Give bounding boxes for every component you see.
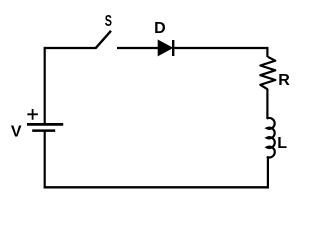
resistor R zigzag (260, 57, 275, 90)
wire battery bottom to bottom-left corner (44, 131, 46, 188)
wire left vertical (top corner to battery + plate) (44, 47, 46, 124)
switch S blade (96, 31, 112, 49)
diode D triangle (anode) (158, 40, 172, 55)
svg-text:D: D (154, 20, 166, 37)
inductor L coil (4 loops) (267, 118, 275, 157)
battery V long plate (+) (27, 123, 63, 126)
battery V short plate (-) (32, 129, 55, 132)
wire diode to top-right corner (173, 47, 267, 49)
svg-text:S: S (105, 13, 112, 30)
wire resistor to inductor (266, 89, 268, 119)
wire top-left horizontal (battery top to switch) (45, 47, 96, 49)
wire switch to diode (117, 47, 159, 49)
svg-text:L: L (277, 135, 287, 152)
wire right vertical to resistor top (266, 47, 268, 57)
battery plus sign (27, 109, 38, 120)
svg-text:R: R (278, 72, 290, 89)
diode D cathode bar (172, 40, 174, 56)
svg-text:V: V (11, 123, 22, 140)
wire inductor to bottom-right corner (267, 157, 269, 188)
wire bottom horizontal (44, 186, 269, 188)
